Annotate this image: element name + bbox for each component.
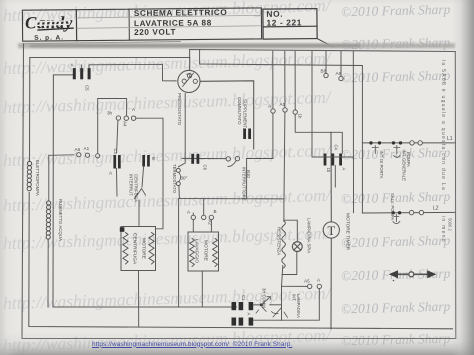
svg-text:1b: 1b [326,168,331,173]
svg-text:ELETTROPOMPA: ELETTROPOMPA [35,160,40,196]
svg-text:C3: C3 [113,149,118,155]
svg-text:30°: 30° [181,176,188,181]
svg-text:C4: C4 [334,145,339,151]
svg-text:SCHEMA ELETTRICO: SCHEMA ELETTRICO [134,8,228,18]
svg-text:PRESSOSTATO: PRESSOSTATO [177,93,182,126]
svg-text:A: A [132,107,136,112]
svg-text:INT. GENERALE: INT. GENERALE [401,150,406,182]
svg-text:RESISTENZA: RESISTENZA [277,227,282,255]
svg-text:A: A [187,210,191,215]
svg-text:C6: C6 [203,165,208,171]
svg-text:A6: A6 [75,147,81,152]
svg-text:A2: A2 [207,220,212,226]
svg-text:A: A [109,171,113,176]
svg-text:SALV. POMPA: SALV. POMPA [390,193,395,220]
svg-text:A6: A6 [336,71,342,76]
svg-text:la 5A68 è uguale a questa con: la 5A68 è uguale a questa con due La [440,60,446,191]
svg-text:B6: B6 [321,69,327,74]
svg-text:A: A [268,104,272,109]
svg-text:A5: A5 [304,279,310,284]
svg-text:A: A [342,168,347,171]
svg-text:MOTORE: MOTORE [141,238,147,259]
svg-text:POMPA: POMPA [406,152,411,167]
svg-text:1b: 1b [298,114,303,119]
svg-text:B: B [151,157,156,160]
svg-text:SUPPLEMENT.: SUPPLEMENT. [243,99,248,129]
svg-text:LAMPADINA: LAMPADINA [296,294,301,318]
svg-text:A: A [247,313,252,316]
svg-text:INTERRUTTORE: INTERRUTTORE [242,167,247,201]
svg-text:A: A [317,278,321,283]
svg-text:INT.: INT. [291,294,296,301]
svg-text:MOTORE TIMER: MOTORE TIMER [345,213,351,251]
svg-text:B10: B10 [246,170,251,178]
svg-text:in meno: in meno [440,216,446,243]
svg-text:COMMUTATO: COMMUTATO [237,97,242,125]
svg-text:A4: A4 [123,121,128,127]
svg-text:LAVAGGIO: LAVAGGIO [194,239,200,263]
svg-text:S. p. A.: S. p. A. [34,35,64,42]
svg-text:RUBINETTO ACQUA: RUBINETTO ACQUA [58,199,63,241]
svg-text:L2: L2 [433,206,439,212]
svg-text:INTERRUT.: INTERRUT. [129,174,134,196]
svg-text:CENTRIFUGA: CENTRIFUGA [132,233,138,265]
svg-text:B: B [214,209,217,214]
svg-text:A1: A1 [280,102,286,107]
svg-text:12 - 221: 12 - 221 [266,17,302,27]
svg-text:T: T [327,224,335,238]
svg-text:C1: C1 [241,295,246,301]
svg-text:C5: C5 [85,85,90,91]
svg-text:L1: L1 [447,136,453,142]
svg-text:A: A [71,63,75,68]
svg-text:MOTORE: MOTORE [203,240,209,261]
svg-text:INT. DI PORTA: INT. DI PORTA [379,151,384,179]
svg-text:CENTRIFUGA: CENTRIFUGA [134,174,139,202]
svg-text:A1: A1 [84,146,90,151]
svg-text:3H COMM.: 3H COMM. [262,288,267,309]
svg-text:LAMPADINA SPIA: LAMPADINA SPIA [307,218,312,253]
svg-text:220 VOLT: 220 VOLT [134,28,176,37]
svg-text:5000 2: 5000 2 [448,218,453,231]
svg-text:3h: 3h [107,111,113,116]
svg-text:TERMOSTATO: TERMOSTATO [172,164,177,194]
